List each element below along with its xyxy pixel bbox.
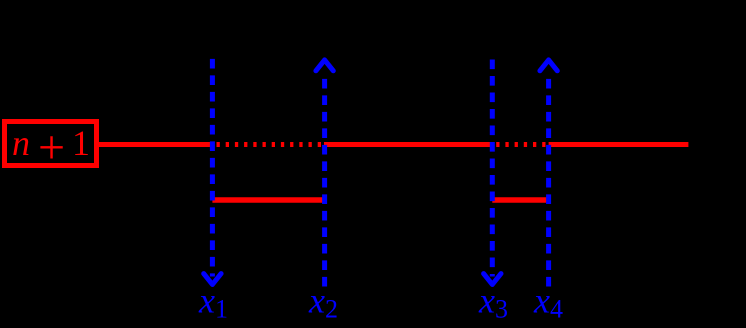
- arrowhead up x2: [316, 60, 333, 71]
- arrowhead up x4: [540, 60, 557, 71]
- main line solid segment left: [99, 142, 213, 147]
- dashed vertical line x3: [490, 60, 495, 277]
- main line solid segment right: [549, 142, 689, 147]
- main line dotted segment x3-x4: [496, 142, 547, 147]
- box n+1: [5, 121, 97, 174]
- dashed vertical line x4: [546, 78, 551, 287]
- dashed vertical line x2: [322, 78, 327, 287]
- lower red segment x3-x4: [492, 197, 548, 203]
- main line solid segment middle: [324, 142, 492, 147]
- dashed vertical line x1: [210, 59, 215, 277]
- arrowhead down x1: [204, 274, 221, 285]
- arrowhead down x3: [484, 274, 501, 285]
- lower red segment x1-x2: [212, 197, 324, 203]
- main line dotted segment x1-x2: [217, 142, 324, 147]
